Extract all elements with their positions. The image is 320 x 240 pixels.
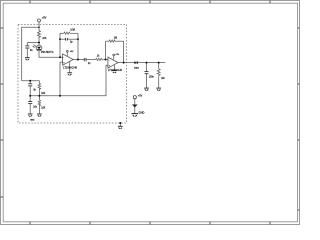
svg-text:1M: 1M [114, 38, 117, 40]
wire bias R6 bottom [38, 89, 40, 96]
ground under R5 [156, 88, 161, 91]
svg-text:+5V: +5V [70, 51, 74, 53]
wire R5 bottom to ground [158, 76, 160, 88]
capacitor C4 100n [145, 71, 149, 73]
zone tick bottom x=270 [269, 222, 271, 225]
zone tick right y=210 [298, 209, 300, 211]
junction R1/C1/photodiode [38, 42, 40, 44]
zone tick bottom x=90 [89, 222, 91, 225]
ground on shield [118, 126, 123, 129]
wire op1 feedback cap left [60, 38, 66, 40]
wire bias C6 top [29, 96, 31, 102]
wire op2 power pin [113, 56, 115, 60]
wire op2 ground pin [114, 65, 116, 70]
power port +5V main [38, 19, 41, 22]
wire R1 to photodiode junction [38, 37, 40, 45]
junction bias mid left [29, 95, 31, 97]
ground under C4 [144, 88, 149, 91]
wire +5V branch left [22, 27, 39, 81]
wire bias mid rail [30, 65, 108, 95]
junction op2 output [123, 62, 125, 64]
wire op2 feedback top left [106, 40, 110, 42]
wire op2 feedback top right [117, 40, 124, 42]
junction bias top left [29, 80, 31, 82]
zone tick right y=140 [298, 139, 300, 141]
svg-text:+5V: +5V [138, 95, 143, 98]
ground bottom supply [132, 114, 139, 117]
capacitor C5 bias top 8n [28, 83, 32, 85]
junction output C4 [146, 62, 148, 64]
junction op2 inverting node [105, 59, 107, 61]
op-amp U1 LT1800 [63, 54, 74, 65]
zone tick bottom x=30 [29, 222, 31, 225]
wire op2 output to diode [118, 62, 134, 64]
wire R5 top [158, 63, 160, 69]
wire op1 feedback top left [60, 32, 64, 34]
junction shield ground [119, 122, 121, 124]
svg-text:LT1800CH8: LT1800CH8 [63, 66, 77, 70]
zone tick left y=84 [1, 83, 4, 85]
ground under C1 [25, 58, 30, 61]
svg-text:+5V: +5V [115, 54, 119, 56]
junction +5V branch [38, 27, 40, 29]
zone tick bottom x=210 [209, 222, 211, 225]
capacitor C2 2p (feedback op1) [65, 38, 67, 41]
svg-text:1N4148: 1N4148 [134, 68, 139, 70]
wire op1 feedback top right [71, 32, 78, 34]
wire photodiode anode to op1 inverting input [39, 51, 63, 57]
wire op1 feedback cap right [67, 38, 78, 40]
wire bias R7 top [38, 96, 40, 100]
junction op1 fb cap right [77, 38, 79, 40]
svg-text:10K: 10K [41, 107, 46, 109]
zone tick bottom x=150 [149, 222, 151, 225]
wire op1 feedback left vertical [59, 33, 61, 57]
zone tick left y=140 [1, 139, 4, 141]
zone tick top x=270 [269, 1, 271, 4]
zone tick top x=210 [209, 1, 211, 4]
zone tick right y=28 [298, 27, 300, 29]
wire C3 to R3 [86, 59, 96, 61]
wire R3 to op2 inverting input [104, 59, 108, 61]
wire op2 feedback right vertical [123, 41, 125, 62]
resistor R3 1k (series) [96, 58, 104, 60]
junction op1 inverting node [59, 56, 61, 58]
zone tick top x=90 [89, 1, 91, 4]
wire op1 feedback right vertical [77, 33, 79, 59]
junction bias mid right [38, 95, 40, 97]
shield dashed box [18, 24, 127, 123]
capacitor C6 bias bottom 10n [28, 101, 32, 103]
wire bias R7 bottom [38, 105, 40, 114]
junction op1 fb cap left [59, 38, 61, 40]
op-amp U2 LT1800 [108, 57, 118, 68]
wire op1 noninverting input drop [60, 62, 63, 96]
ground under op1 [67, 73, 72, 76]
resistor R7 bias bottom 10K [38, 100, 41, 106]
arrow on supply [132, 105, 138, 108]
svg-text:10K: 10K [41, 93, 46, 95]
junction bias rail op1 tap [59, 95, 61, 97]
svg-text:LT1800CH8: LT1800CH8 [108, 68, 122, 72]
wire C1 bottom to ground [26, 48, 28, 58]
zone tick top x=150 [149, 1, 151, 4]
svg-text:1M: 1M [161, 78, 164, 80]
power port +5V bottom [133, 96, 136, 99]
wire diode to output end [138, 62, 166, 64]
wire shield ground stem [119, 123, 121, 126]
wire junction to C1 [27, 42, 39, 44]
zone tick top x=30 [29, 1, 31, 4]
junction output R5 [158, 62, 160, 64]
photodiode D1 PIN-5D [33, 45, 54, 54]
wire bias C5 bottom [29, 86, 31, 96]
wire op1 power pin [66, 52, 68, 56]
wire op2 feedback left vertical [105, 41, 107, 59]
wire +5V down to R1 [38, 22, 40, 30]
wire C4 bottom to ground [146, 74, 148, 88]
ground under C6 [28, 114, 33, 117]
resistor R5 1M (load) [157, 69, 160, 77]
svg-text:100n: 100n [149, 76, 155, 78]
capacitor C3 2n (series) [83, 58, 85, 61]
svg-text:+5V: +5V [42, 16, 47, 20]
resistor R2 10M (feedback op1) [64, 32, 71, 34]
wire bias top rail [22, 80, 40, 82]
junction op1 output [77, 59, 79, 61]
svg-text:GND: GND [139, 110, 145, 114]
zone tick right y=84 [298, 83, 300, 85]
zone tick left y=28 [1, 27, 4, 29]
wire bias R6 top branch [38, 81, 40, 84]
svg-text:PIN-5D/TC: PIN-5D/TC [41, 50, 54, 54]
capacitor C1 8n [25, 45, 29, 47]
resistor R1 10K [38, 31, 41, 38]
resistor R4 1M (feedback op2) [109, 40, 116, 42]
svg-text:GND: GND [30, 120, 35, 122]
wire bias C5 top branch [29, 81, 31, 84]
wire bottom supply vertical [134, 99, 136, 114]
ground under op2 [112, 71, 117, 74]
ground under R7 [37, 114, 42, 117]
svg-text:10K: 10K [42, 38, 47, 40]
zone tick left y=197 [1, 196, 4, 198]
resistor R6 bias top 10K [38, 83, 41, 89]
wire bias C6 bottom [29, 104, 31, 114]
wire op1 ground pin [69, 62, 71, 73]
diode D2 1N4148 [134, 61, 137, 64]
svg-text:10M: 10M [70, 30, 75, 32]
wire op1 output [73, 59, 84, 61]
wire C4 top [146, 63, 148, 72]
wire C1 top [26, 43, 28, 46]
